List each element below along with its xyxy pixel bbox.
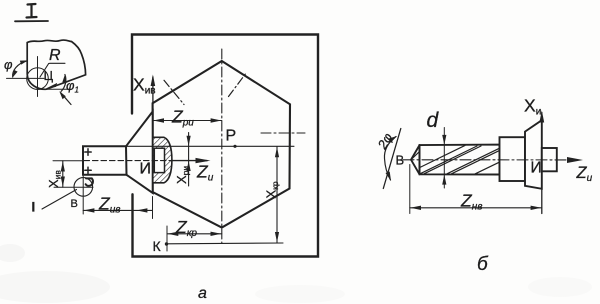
leader from R to center	[40, 63, 65, 77]
svg-text:I: I	[32, 200, 36, 215]
axis Z_i arrow	[171, 160, 207, 162]
angle phi arc with arrows	[13, 61, 28, 77]
svg-text:И: И	[140, 161, 152, 178]
svg-text:φ1: φ1	[66, 78, 79, 95]
svg-text:Zив: Zив	[98, 194, 120, 216]
svg-text:Zри: Zри	[171, 107, 194, 129]
surface slash mark on upper-left hexagon face	[164, 80, 184, 104]
svg-text:Ц: Ц	[44, 68, 54, 83]
svg-text:Хри: Хри	[174, 166, 191, 184]
dimension Z_ri	[153, 120, 222, 122]
plus mark upper on shank	[85, 149, 91, 155]
axis X_iv (vertical arrow above tool edge)	[152, 77, 154, 103]
leader line from label I to detail circle	[42, 190, 77, 210]
chuck collar	[500, 137, 526, 181]
flute helix line 4	[475, 162, 499, 174]
svg-text:Хкр: Хкр	[264, 181, 281, 198]
svg-text:R: R	[49, 47, 61, 64]
axis X_i vertical	[541, 113, 543, 214]
dimension X_kr	[276, 147, 278, 243]
inscribed radius circle at corner	[27, 68, 49, 90]
svg-text:Xив: Xив	[133, 75, 156, 97]
flute helix line 3 (pair)	[447, 148, 499, 174]
2phi edge extension line	[383, 129, 401, 189]
tool holder cone	[126, 112, 153, 194]
svg-text:В: В	[396, 153, 405, 168]
Xiv dim lower extension line	[54, 186, 93, 188]
d lower arrow	[442, 175, 446, 185]
svg-text:В: В	[71, 198, 78, 210]
hexagon vertical centerline (dash-dot)	[221, 49, 223, 244]
svg-text:Zкр: Zкр	[175, 217, 197, 239]
svg-text:К: К	[153, 238, 162, 254]
arrowhead on blob bottom edge	[45, 83, 57, 89]
scan smudges (decorative)	[0, 244, 592, 303]
node K dot	[165, 242, 168, 245]
axis Z_i arrow	[567, 157, 583, 163]
P horizontal line	[84, 145, 294, 147]
roman numeral I heading	[27, 4, 37, 18]
tool tip radius detail inside circle	[86, 178, 93, 186]
svg-text:а: а	[198, 285, 207, 302]
drill axis centerline (dash-dot)	[403, 159, 568, 161]
Xiv dim upper extension line	[53, 160, 82, 162]
Z_iv right extension line	[152, 197, 154, 219]
dimension Z_iv	[83, 209, 152, 211]
insert core rectangle	[154, 148, 164, 172]
d upper arrow	[442, 135, 446, 145]
workpiece square frame (left edge broken where tool passes)	[132, 35, 318, 257]
phi1 pointer arrow from below	[61, 93, 71, 105]
drill point (tip cone)	[411, 145, 420, 174]
cutter insert (hatched dome)	[153, 137, 172, 183]
detail circle at tool tip B	[74, 178, 93, 197]
heading underline	[15, 20, 48, 22]
center vertical line	[37, 57, 39, 97]
plus mark lower on shank	[85, 167, 91, 173]
Z_iv left extension line (through detail circle)	[82, 176, 84, 214]
bottom tangent horizontal line	[37, 88, 71, 90]
holder cone	[525, 120, 542, 189]
flute helix line 2 (pair)	[420, 146, 477, 174]
2phi angle arc	[384, 137, 396, 181]
flute helix line 1	[420, 145, 465, 167]
surface slash mark on upper-right hexagon face	[229, 73, 247, 97]
svg-text:d: d	[427, 109, 440, 132]
svg-text:б: б	[477, 254, 489, 275]
angle phi1 arc with arrows	[61, 75, 66, 92]
hexagonal workpiece	[153, 61, 290, 228]
dimension X_ri (small vertical near P)	[188, 133, 190, 187]
dimension X_iv (left small vertical)	[62, 161, 64, 187]
svg-text:P: P	[226, 128, 237, 145]
tool shank	[83, 146, 127, 175]
tool axis centerline (dashed)	[84, 160, 171, 162]
svg-text:Zи: Zи	[576, 164, 593, 184]
svg-text:Zнв: Zнв	[460, 191, 482, 213]
svg-text:Хив: Хив	[46, 170, 63, 188]
K vertical extension line	[166, 226, 168, 251]
node P dot	[233, 145, 236, 148]
svg-text:И: И	[531, 160, 542, 177]
dimension Z_nv	[410, 207, 542, 209]
svg-text:2φ: 2φ	[374, 130, 396, 152]
svg-text:φ: φ	[4, 57, 13, 72]
drill body	[420, 145, 500, 175]
svg-text:Xи: Xи	[524, 96, 541, 118]
center horizontal line	[7, 77, 45, 79]
K horizontal line	[167, 242, 284, 245]
dimension d extension line (vertical through body)	[443, 128, 445, 189]
Z_nv left extension (below drill tip)	[409, 165, 411, 214]
dimension Z_kr	[167, 233, 222, 235]
hexagon horizontal centerline (right stub, dash-dot)	[261, 132, 305, 134]
svg-text:Zи: Zи	[196, 162, 214, 184]
pull stud	[542, 148, 557, 171]
blob outline of detail fragment	[27, 40, 85, 89]
